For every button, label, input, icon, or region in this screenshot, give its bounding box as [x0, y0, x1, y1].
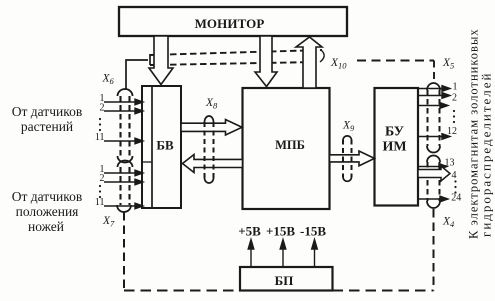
pin dots right group2 — [454, 180, 456, 193]
wire bottom dashed left (X7 to БП) — [124, 289, 240, 291]
svg-text:+15В: +15В — [266, 224, 295, 239]
svg-text:БУ: БУ — [385, 125, 404, 140]
arrow МОНИТОР to МПБ (hollow down) — [255, 36, 277, 87]
cable X5/X4 right dashed pair — [428, 90, 440, 201]
wire power -15V arrow — [314, 247, 316, 267]
wire output 14 boxed arrow — [418, 166, 450, 181]
svg-text:+5В: +5В — [238, 224, 261, 239]
arrow МПБ to МОНИТОР (hollow up) — [296, 37, 322, 88]
svg-text:4: 4 — [452, 170, 457, 181]
block БВ — [142, 86, 181, 208]
pin dots group1 — [99, 118, 101, 131]
svg-text:-15В: -15В — [300, 224, 326, 239]
connector X7 bottom arc — [117, 205, 131, 212]
wire output 2 — [418, 95, 443, 97]
label К электромагнитам золотниковых гидрораспределителей (rotated) — [467, 28, 494, 239]
block БУ ИМ — [375, 88, 419, 206]
cable X6/X7 left dashed pair — [121, 96, 130, 205]
arrow МПБ to БУ ИМ (hollow right) — [330, 151, 375, 166]
svg-text:X4: X4 — [442, 216, 455, 230]
svg-text:11: 11 — [95, 197, 105, 208]
connector X9 bottom arc — [343, 178, 352, 182]
wire output 13 — [418, 166, 440, 168]
arrow БВ to МПБ (hollow right) — [181, 120, 242, 136]
arrow МПБ to БВ (hollow left) — [183, 155, 243, 173]
wire sensor input 11 group2 — [104, 205, 136, 207]
wire output 3 — [418, 105, 441, 107]
wire output 24 — [418, 198, 441, 200]
svg-text:От датчиков: От датчиков — [12, 189, 82, 204]
wire X10 bus lower dashed line — [150, 62, 318, 65]
block БП — [240, 267, 333, 291]
svg-text:БВ: БВ — [156, 138, 174, 153]
svg-text:МПБ: МПБ — [275, 138, 305, 152]
svg-text:ножей: ножей — [28, 219, 64, 234]
wire X5 corner drop — [433, 61, 435, 81]
connector X4 bottom arc — [427, 201, 440, 208]
block БВ strip divider tick — [142, 161, 152, 163]
pin dots group2 — [99, 185, 101, 198]
wire sensor input 2 group1 — [104, 110, 136, 112]
wire bottom dashed right (БП to X4) — [333, 289, 434, 291]
svg-text:13: 13 — [445, 158, 455, 169]
svg-text:2: 2 — [100, 173, 105, 184]
svg-text:12: 12 — [447, 126, 457, 137]
connector X8 bottom arc — [205, 178, 214, 183]
connector X8 top arc — [205, 116, 214, 122]
connector X9 top arc — [343, 136, 352, 140]
svg-text:1: 1 — [453, 82, 458, 93]
node X10 cable end bracket — [320, 51, 324, 63]
svg-text:МОНИТОР: МОНИТОР — [195, 16, 265, 31]
wire X10 bus upper dashed line — [150, 50, 322, 55]
svg-text:положения: положения — [16, 204, 79, 219]
pin dots right group1 — [453, 110, 455, 123]
cable X9 dashed pair — [343, 140, 352, 178]
wire power +5V arrow — [250, 247, 252, 267]
wire power +15V arrow — [282, 247, 284, 267]
svg-text:X6: X6 — [102, 73, 115, 87]
connector X5 top arc — [427, 83, 440, 90]
connector X5/X4 junction bowtie — [427, 146, 440, 162]
wire sensor input 11 group1 — [104, 140, 136, 142]
svg-text:гидрораспределителей: гидрораспределителей — [479, 72, 494, 238]
wire from X10 bus to connector X6 — [126, 60, 148, 90]
arrow МОНИТОР to БВ (hollow down) — [149, 36, 173, 85]
svg-text:БП: БП — [275, 273, 294, 288]
wire sensor input 1 group2 — [104, 172, 136, 174]
svg-text:X5: X5 — [442, 57, 454, 71]
wire X10 to X5 dashed — [357, 60, 434, 62]
cable X8 dashed pair — [205, 122, 214, 178]
svg-text:2: 2 — [100, 103, 105, 114]
wire X4 vertical dashed — [433, 209, 435, 291]
svg-text:X8: X8 — [205, 97, 218, 111]
wire sensor input 2 group2 — [104, 181, 136, 183]
connector X6/X7 junction bowtie — [118, 156, 133, 167]
connector X6 top arc — [118, 89, 133, 96]
svg-text:2: 2 — [452, 93, 457, 104]
svg-text:24: 24 — [451, 193, 461, 204]
wire output 1 — [418, 88, 443, 90]
wire X7 vertical dashed to power unit — [123, 212, 125, 291]
wire output 12 — [418, 136, 443, 138]
svg-text:X9: X9 — [342, 120, 355, 134]
svg-text:X10: X10 — [330, 57, 347, 71]
wire X10 bus left end connector — [149, 54, 151, 65]
wire sensor input 1 group1 — [104, 101, 136, 103]
block МПБ — [243, 88, 330, 209]
svg-text:От датчиков: От датчиков — [12, 104, 82, 119]
svg-text:ИМ: ИМ — [382, 140, 406, 155]
svg-text:11: 11 — [95, 132, 105, 143]
svg-text:X7: X7 — [102, 215, 115, 229]
svg-text:растений: растений — [21, 119, 73, 134]
block МОНИТОР — [119, 7, 347, 36]
block БВ connector strip inner line — [151, 86, 153, 208]
